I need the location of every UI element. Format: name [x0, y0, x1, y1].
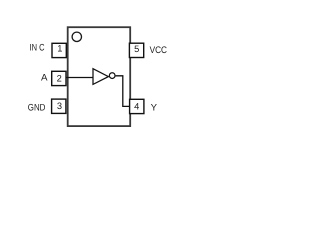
pin 2 box [52, 71, 66, 85]
svg-text:GND: GND [28, 103, 46, 114]
svg-text:Y: Y [151, 103, 158, 114]
inverter output bubble [109, 73, 115, 79]
pin 3 box [52, 99, 66, 113]
svg-text:4: 4 [134, 101, 139, 111]
svg-text:IN C: IN C [30, 43, 45, 54]
svg-text:3: 3 [57, 101, 62, 111]
inverter gate U1A triangle [93, 69, 108, 85]
svg-text:A: A [41, 72, 48, 83]
svg-text:VCC: VCC [150, 45, 168, 56]
wire A to inverter input [66, 77, 93, 79]
IC body U1 [68, 27, 131, 126]
pin 5 box [129, 43, 143, 57]
pin-1 index circle [72, 32, 81, 41]
svg-text:2: 2 [57, 74, 62, 84]
wire inverter output to pin 4 [116, 76, 130, 107]
svg-text:5: 5 [134, 44, 139, 54]
pin 4 box [130, 99, 144, 113]
svg-text:1: 1 [57, 44, 62, 54]
pin 1 box [52, 43, 66, 57]
